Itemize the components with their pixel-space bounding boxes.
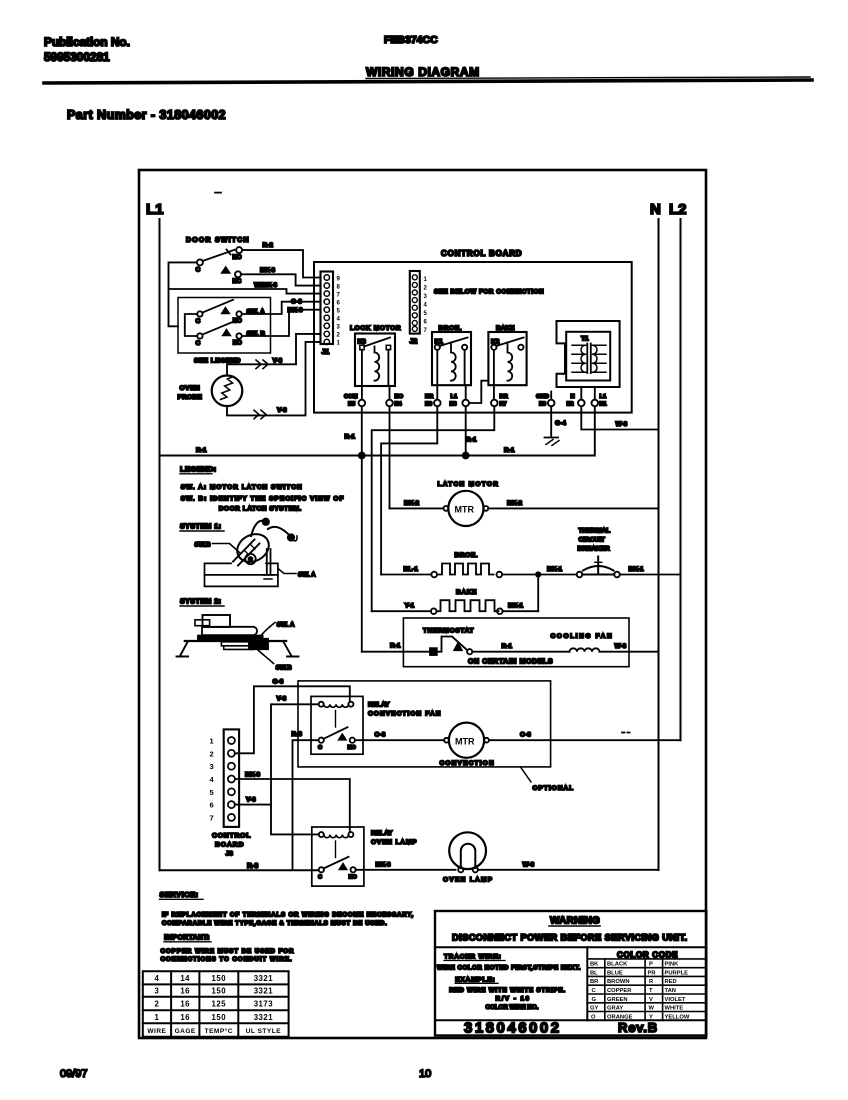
wire from door switch C down left side [169,262,197,326]
svg-text:RED: RED [665,979,677,985]
warning box divider horizontal [435,946,706,948]
connector J1 [321,272,334,345]
svg-text:IMPORTANT:: IMPORTANT: [164,935,210,942]
svg-text:16: 16 [180,987,190,996]
junction broil-bake right leg [537,575,539,612]
relay convection fan coil pins [319,702,324,707]
svg-text:R-2: R-2 [263,242,274,249]
wire from E8 down to R-1 bus [465,406,467,455]
wire from E4 down to latch motor [389,406,391,508]
svg-text:SW.B: SW.B [276,665,293,672]
svg-text:3321: 3321 [254,1013,274,1022]
relay oven lamp coil pins [319,832,324,837]
wire Y-1 to bake [372,610,431,612]
svg-text:LEGEND:: LEGEND: [180,465,217,474]
wire BK-2 right of latch motor to N bus [488,507,658,509]
svg-text:T: T [649,988,653,994]
svg-text:TEMP°C: TEMP°C [205,1027,233,1035]
wire broil to thermal breaker [502,574,577,576]
svg-text:BK-3: BK-3 [376,861,392,868]
svg-text:E4: E4 [395,402,403,408]
connector J2 pin numbers [424,277,428,334]
svg-text:Rev.B: Rev.B [618,1020,658,1035]
svg-text:L1: L1 [146,201,164,218]
oven lamp bulb [449,832,486,869]
svg-text:GND: GND [536,394,549,400]
door switch blade [203,250,235,261]
svg-text:MTR: MTR [455,736,475,746]
wire W/BK-3 from C leg to J1 pin7 [169,289,321,294]
wire N bus vertical [658,219,660,870]
oven probe circle with internal resistor [212,376,243,407]
svg-text:16: 16 [180,1000,190,1009]
svg-text:GRAY: GRAY [607,1006,623,1012]
svg-text:BK-3: BK-3 [245,772,261,779]
svg-text:Publication No.: Publication No. [44,35,130,49]
svg-text:BAKE: BAKE [456,589,477,596]
wire G-3 from J3 pin2 to convection relay coil right [235,686,350,753]
svg-text:R-1: R-1 [345,434,356,441]
svg-text:BROIL: BROIL [455,552,478,559]
thermostat triangle [454,643,461,650]
svg-text:E9: E9 [539,402,547,408]
svg-text:THERMOSTAT: THERMOSTAT [423,628,474,635]
wire from E6 jog to broil [381,406,437,574]
warning box [435,911,706,1036]
rule: thick header line [44,80,812,83]
svg-text:WIRE: WIRE [147,1028,166,1035]
wire V-3 from pin6 leg to oven lamp relay coil left [271,805,319,835]
diagram outer border [139,170,706,1038]
svg-text:6: 6 [337,301,341,307]
svg-text:VIOLET: VIOLET [665,997,686,1003]
svg-text:COMPARABLE WIRE TYPE,GAGE & TE: COMPARABLE WIRE TYPE,GAGE & TERMINALS MU… [162,920,387,927]
svg-text:PR: PR [648,970,657,976]
svg-text:SYSTEM 2:: SYSTEM 2: [180,599,221,606]
svg-text:OPTIONAL: OPTIONAL [533,785,575,792]
svg-text:3: 3 [424,294,428,300]
svg-text:1: 1 [337,341,341,347]
system 1 latch cam [232,529,273,567]
svg-text:T1: T1 [581,336,589,343]
door switch NC contact with triangle [222,267,229,273]
transformer T1 outline [557,321,620,387]
warning box divider vertical [586,947,588,1020]
svg-text:WHITE: WHITE [665,1006,684,1012]
svg-text:GY: GY [590,1006,599,1012]
color code table text [590,962,690,1021]
relay oven lamp coil [324,835,349,838]
svg-text:W/BK-3: W/BK-3 [254,282,277,289]
svg-text:LATCH MOTOR: LATCH MOTOR [438,481,500,488]
svg-text:SYSTEM 1:: SYSTEM 1: [180,524,221,531]
svg-text:BOARD: BOARD [215,842,244,849]
svg-text:BK-2: BK-2 [404,500,420,507]
rule: thin underline [366,77,810,79]
svg-text:G: G [592,997,597,1003]
svg-text:J2: J2 [410,339,418,346]
svg-text:R-1: R-1 [390,643,401,650]
svg-text:CONVECTION: CONVECTION [440,760,495,767]
door switch common contact C [197,259,203,265]
wire W-3 oven lamp to N bus [478,869,659,871]
wire L1 bus vertical [159,219,161,870]
svg-text:150: 150 [212,987,227,996]
svg-text:CONTROL: CONTROL [212,833,251,840]
svg-text:NO: NO [233,341,242,347]
svg-text:G-4: G-4 [555,420,566,427]
svg-text:16: 16 [180,1013,190,1022]
svg-text:Part Number - 318046002: Part Number - 318046002 [67,108,226,122]
transformer T1 secondary winding [593,345,607,372]
convection motor MTR [449,723,484,758]
terminal NO E4 [386,400,393,407]
svg-text:125: 125 [212,1000,227,1009]
svg-text:PURPLE: PURPLE [665,970,689,976]
svg-text:E2: E2 [567,402,574,408]
thermostat contact square [430,648,437,655]
wire from E8 to relay K2 [469,381,488,403]
svg-text:L1: L1 [451,394,459,400]
svg-text:L2: L2 [669,201,687,218]
terminal COM E5 [359,400,366,407]
svg-text:L1: L1 [600,394,608,400]
wire BK-1 breaker to L2 [620,574,681,576]
relay convection fan coil [324,704,349,707]
svg-text:RELAY: RELAY [371,830,393,837]
svg-text:SERVICE:: SERVICE: [160,890,199,899]
wire O-3 convection motor to L2 bus [489,739,681,741]
wire BK-3 from NC to J1 pin8 [241,274,321,285]
relay K2 wire to terminal [493,350,495,400]
relay K3 box [355,334,395,387]
svg-text:3: 3 [337,325,341,331]
wire gauge table text [147,974,281,1035]
svg-text:2: 2 [210,749,214,758]
svg-text:6: 6 [424,320,428,326]
relay oven lamp box [312,827,364,886]
svg-text:2: 2 [154,1000,159,1009]
svg-text:3321: 3321 [254,974,274,983]
svg-text:WIRING DIAGRAM: WIRING DIAGRAM [366,65,480,79]
svg-text:318046002: 318046002 [464,1020,562,1037]
svg-text:COM: COM [344,394,358,400]
switch SW.B common [197,333,202,338]
svg-text:COPPER: COPPER [607,988,632,994]
svg-text:4: 4 [337,317,341,323]
svg-text:9: 9 [337,276,341,282]
svg-text:DISCONNECT POWER BEFORE SERVIC: DISCONNECT POWER BEFORE SERVICING UNIT. [452,933,687,943]
svg-text:K3: K3 [358,339,367,346]
svg-text:CONVECTION FAN: CONVECTION FAN [368,711,442,718]
motor latch MTR circle [448,491,483,526]
switch SW.B blade [202,322,233,335]
svg-text:TRACER WIRE:: TRACER WIRE: [444,954,502,961]
relay K1 coil [451,343,456,381]
svg-text:Y-1: Y-1 [405,603,415,610]
wire V-3 from probe top to J1 pin2 [227,334,321,376]
svg-text:SW. A: SW. A [277,622,295,629]
wire from E5 down to thermostat run [361,406,363,651]
svg-text:3: 3 [154,987,159,996]
svg-text:1: 1 [154,1013,159,1022]
svg-text:O-3: O-3 [291,299,302,306]
svg-text:BK-1: BK-1 [629,566,645,573]
svg-text:V-3: V-3 [246,797,256,804]
svg-text:V: V [649,997,653,1003]
svg-text:COOLING FAN: COOLING FAN [551,633,614,640]
svg-text:COLOR WIRE NO.: COLOR WIRE NO. [486,1004,539,1011]
system 2 latch drawing [203,615,231,627]
svg-text:GREEN: GREEN [607,997,628,1003]
wires T1 to terminals [581,387,595,400]
svg-text:SW. A: MOTOR LATCH SWITCH: SW. A: MOTOR LATCH SWITCH [181,484,303,491]
svg-text:R-1: R-1 [502,643,513,650]
relay K1 box [432,332,471,385]
switch SW.A NO contact with triangle [222,308,229,313]
wire BK-2 left of latch motor [390,507,444,509]
svg-text:OVEN LAMP: OVEN LAMP [371,839,417,846]
relay K2 contacts and blade [491,345,496,350]
control board box [314,262,632,413]
svg-text:7: 7 [424,328,428,334]
bake element terminals [431,608,437,614]
svg-text:N: N [650,201,661,218]
wire V-3 from probe bottom to J1 pin1 [227,342,321,416]
connector J3 box [224,729,239,827]
svg-text:3321: 3321 [254,987,274,996]
svg-text:BROWN: BROWN [607,979,630,985]
svg-text:R-1: R-1 [504,447,515,454]
svg-text:BLUE: BLUE [607,970,623,976]
wire L2 bus vertical [680,219,682,740]
svg-text:E8: E8 [450,402,458,408]
svg-text:CIRCUIT: CIRCUIT [579,537,605,544]
transformer T1 primary winding [572,345,586,372]
svg-text:N: N [571,394,575,400]
relay K2 coil [508,343,513,381]
svg-text:RELAY: RELAY [368,702,390,709]
wire BL-1 to broil [381,574,431,576]
stray marks [622,732,630,734]
svg-text:COPPER WIRE MUST BE USED FOR: COPPER WIRE MUST BE USED FOR [161,948,295,955]
svg-text:5: 5 [210,788,214,797]
svg-text:BK-1: BK-1 [508,603,524,610]
svg-text:1: 1 [210,737,214,746]
svg-text:NO: NO [349,874,358,880]
terminal N E2 [578,400,585,407]
svg-text:LOCK MOTOR: LOCK MOTOR [350,325,401,332]
svg-text:WIRE COLOR NOTED FIRST,STRIPE: WIRE COLOR NOTED FIRST,STRIPE NEXT. [437,965,581,972]
terminal L1 E1 [592,400,599,407]
svg-text:V-3: V-3 [273,358,283,365]
transformer T1 core [587,344,591,374]
svg-text:BK: BK [590,962,599,968]
svg-text:SW. A: SW. A [298,572,316,579]
thermal circuit breaker [577,572,583,578]
chevrons on top probe wire [256,360,268,369]
svg-text:3173: 3173 [254,1000,274,1009]
latch switch box SEE LEGEND [178,298,271,354]
svg-text:G-3: G-3 [273,679,284,686]
svg-text:SW. B: IDENTIFY THE SPECIFIC: SW. B: IDENTIFY THE SPECIFIC VIEW OF [181,496,345,503]
svg-text:O-3: O-3 [375,732,386,739]
door switch NO contact [236,247,242,253]
svg-text:2: 2 [337,333,341,339]
svg-text:SW.B: SW.B [195,542,212,549]
wire R-1 bus [160,406,595,455]
system 1 wire squiggles [251,521,264,536]
svg-text:4: 4 [424,303,428,309]
relay oven lamp switch [319,867,324,872]
connector J3 pin numbers [210,737,215,823]
svg-text:NO: NO [233,319,242,325]
wire BK-3 relay NO to oven lamp [356,869,456,871]
svg-text:4: 4 [154,974,159,983]
svg-text:1: 1 [424,277,428,283]
svg-text:BR: BR [590,979,599,985]
system 2 latch detail plates [221,642,255,650]
svg-text:UL STYLE: UL STYLE [246,1028,281,1035]
transformer T1 inner box [566,332,610,381]
wire joining SW.A and SW.B commons [185,314,197,336]
svg-text:EXAMPLE:: EXAMPLE: [455,976,495,983]
svg-text:NC: NC [233,279,242,285]
svg-text:NO: NO [233,255,242,261]
svg-text:TAN: TAN [665,988,676,994]
optional convection box [298,681,551,767]
svg-text:3: 3 [210,762,214,771]
svg-text:V-3: V-3 [277,696,287,703]
svg-text:CONTROL BOARD: CONTROL BOARD [441,249,522,258]
svg-text:PROBE: PROBE [178,394,203,401]
svg-text:W-3: W-3 [616,421,628,428]
svg-text:BL: BL [590,970,598,976]
svg-text:J3: J3 [226,851,234,858]
svg-text:R-1: R-1 [196,447,207,454]
connector J2 [410,271,420,334]
relay convection fan box [311,696,363,754]
svg-text:NO: NO [395,394,404,400]
svg-text:150: 150 [212,1013,227,1022]
svg-text:BLACK: BLACK [607,962,628,968]
svg-text:C: C [592,988,597,994]
relay K1 wires to terminals [436,350,438,400]
svg-text:DOOR SWITCH: DOOR SWITCH [186,237,250,244]
svg-text:BK-3: BK-3 [260,267,276,274]
svg-text:SEE BELOW FOR CONNECTION: SEE BELOW FOR CONNECTION [434,289,544,296]
cooling fan coil [570,648,600,651]
svg-text:BK-2: BK-2 [507,500,523,507]
svg-text:R-3: R-3 [292,731,303,738]
svg-text:BR: BR [425,394,434,400]
svg-text:W-3: W-3 [615,643,627,650]
bake heating element [437,600,499,611]
svg-text:RED WIRE WITH WHITE STRIPE.: RED WIRE WITH WHITE STRIPE. [449,987,566,994]
svg-text:THERMAL: THERMAL [579,528,611,535]
svg-text:R-1: R-1 [466,437,477,444]
svg-text:J1: J1 [322,349,330,356]
wire W-3 cooling fan to N bus [600,651,659,653]
junction dot on R-1 bus at E5 [359,453,365,459]
thermostat moving contact [467,649,472,654]
svg-text:ON CERTAIN MODELS: ON CERTAIN MODELS [468,659,553,666]
svg-text:C: C [196,340,201,347]
svg-text:BREAKER: BREAKER [578,546,610,553]
wire R-3 bottom run from L1 to oven lamp relay C [160,869,319,871]
svg-text:OVEN LAMP: OVEN LAMP [443,877,493,884]
switch SW.A blade [202,300,233,313]
svg-text:GAGE: GAGE [175,1028,196,1035]
svg-text:BK-1: BK-1 [547,566,563,573]
terminal BR E7 [491,400,498,407]
broil element terminals [431,572,437,578]
relay K3 wires to terminals [361,350,363,400]
svg-text:2: 2 [424,286,428,292]
broil heating element [437,564,494,575]
svg-text:OVEN: OVEN [180,385,201,392]
wire BK-3 from SW.B NO to J1 pin5 [242,310,321,336]
thermostat step and blade [437,637,467,652]
svg-text:5: 5 [424,311,428,317]
svg-text:E7: E7 [500,402,507,408]
svg-text:IF REPLACEMENT OF TERMINALS OR: IF REPLACEMENT OF TERMINALS OR WIRING BE… [162,912,414,919]
svg-text:CONNECTIONS TO CONDUIT WIRE.: CONNECTIONS TO CONDUIT WIRE. [161,956,293,963]
connector J1 pin numbers [337,276,341,346]
wire G-4 ground stub from E9 [550,406,552,437]
svg-text:7: 7 [337,292,341,298]
thermostat cooling fan box [403,618,629,667]
svg-text:6: 6 [210,801,214,810]
wire from E7 jog to bake [372,406,495,611]
svg-text:O-3: O-3 [520,732,531,739]
svg-text:7: 7 [210,813,214,822]
stray scan mark [215,192,221,194]
terminal GND E9 with stub [550,392,552,400]
svg-text:NO: NO [348,745,357,751]
switch SW.A common [197,311,202,316]
junction dot on R-1 bus at E8 [463,453,469,459]
switch SW.B NO contact with triangle [223,330,230,335]
terminal BR E6 [434,400,441,407]
svg-text:V-3: V-3 [277,407,287,414]
svg-text:R-3: R-3 [247,863,258,870]
wire BK-3 from J3 pin4 to oven lamp relay coil right [235,779,350,832]
label OPTIONAL with leader [521,767,532,782]
svg-text:5: 5 [337,309,341,315]
svg-text:BR: BR [500,394,509,400]
svg-text:R/V - 10: R/V - 10 [496,996,531,1003]
wire V-3 from J3 pin6 to convection relay coil left [235,704,319,804]
relay K3 coil [375,347,380,381]
svg-text:E6: E6 [425,402,433,408]
wire O-3 relay NO to convection motor [355,739,444,741]
svg-text:8: 8 [337,284,341,290]
relay K3 contacts and blade [360,345,364,349]
wire R-1 into thermostat [362,651,430,653]
svg-text:C: C [318,874,322,880]
wire R-2 from NO to J1 pin9 [242,250,320,277]
svg-text:150: 150 [212,974,227,983]
svg-text:14: 14 [180,974,190,983]
system 1 latch drawing base [205,563,278,586]
svg-text:09/97: 09/97 [60,1068,88,1080]
ground symbol [545,437,559,439]
wire R-3 tap up to convection relay C [293,740,319,869]
svg-text:C: C [318,745,322,751]
wire W-3 from E2 to N bus [581,406,658,429]
svg-text:W-3: W-3 [523,861,535,868]
